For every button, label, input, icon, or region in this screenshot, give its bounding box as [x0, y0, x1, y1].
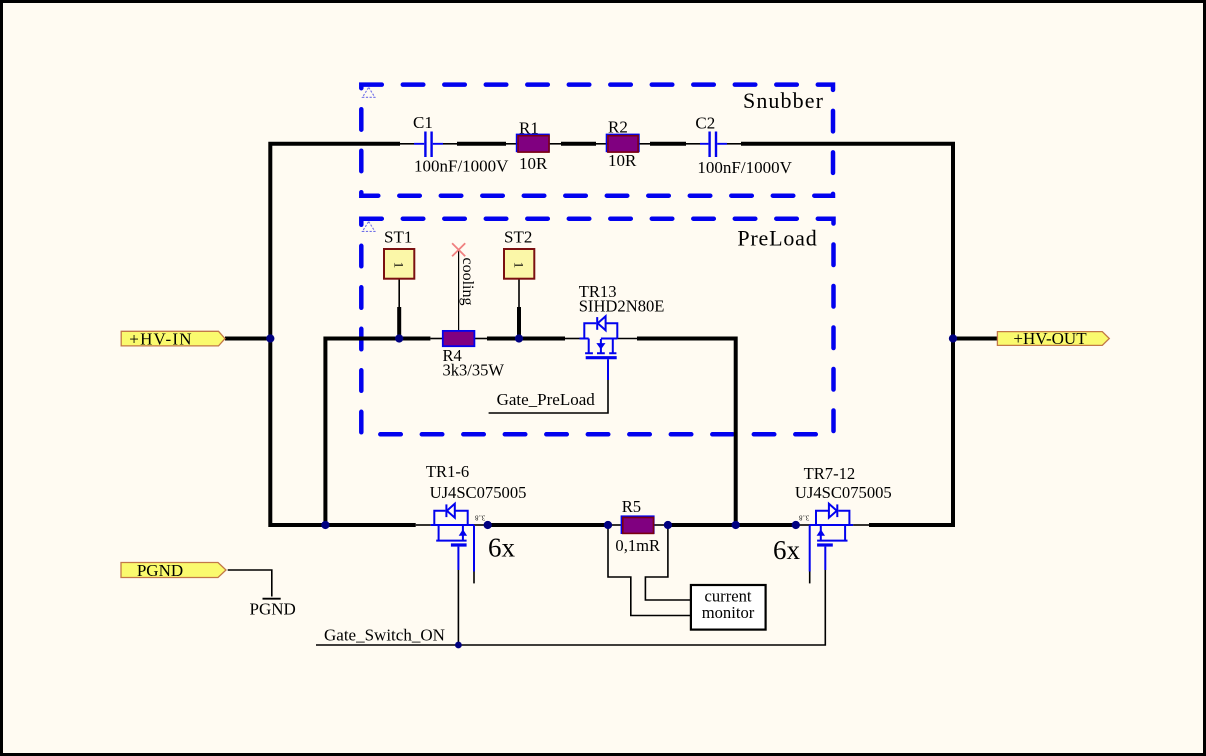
pin C2 left — [686, 143, 700, 145]
svg-text:R5: R5 — [622, 497, 641, 516]
svg-text:0,1mR: 0,1mR — [615, 536, 661, 555]
svg-text:Gate_PreLoad: Gate_PreLoad — [497, 390, 596, 409]
wire preload feed riser and R4 line — [325, 339, 430, 526]
pin R4 right — [475, 338, 487, 340]
resistor R5 — [621, 516, 653, 533]
pin R1 right — [549, 143, 561, 145]
svg-text:PreLoad: PreLoad — [737, 226, 817, 251]
wire ST1 stub — [397, 307, 401, 339]
wire snubber R2-C2 segment — [650, 142, 686, 146]
pin TR7-12 drain — [796, 524, 810, 526]
svg-text:R2: R2 — [608, 118, 628, 137]
svg-text:Gate_Switch_ON: Gate_Switch_ON — [324, 626, 445, 645]
port PGND — [121, 561, 226, 580]
resistor R1 — [517, 134, 549, 152]
svg-text:+HV-OUT: +HV-OUT — [1013, 329, 1087, 348]
snubber collapse triangle — [362, 87, 375, 97]
wire R4 to TR13 segment — [487, 337, 565, 341]
resistor R4 — [443, 331, 475, 346]
current monitor box — [691, 585, 766, 630]
wire left bus from snubber line down to bottom line — [270, 144, 415, 525]
pin TR1-6 drain — [416, 524, 431, 526]
junction right bus / +HV-OUT — [949, 334, 957, 342]
junction +HV-IN / left bus — [266, 334, 274, 342]
pin C2 right — [727, 143, 741, 145]
pin ST1 — [398, 279, 400, 307]
svg-text:ST2: ST2 — [504, 228, 532, 247]
pin TR1-6 gate tail — [457, 570, 459, 645]
junction ST1 / R4 line — [395, 334, 403, 342]
junction TR1-6 gate / Gate_Switch_ON — [455, 642, 462, 649]
port +HV-IN — [121, 329, 225, 348]
svg-text:cooling: cooling — [459, 258, 476, 306]
svg-text:3..8: 3..8 — [475, 513, 486, 520]
pin C1 left — [400, 143, 414, 145]
pin R2 right — [638, 143, 650, 145]
capacitor C1 — [414, 132, 443, 158]
snubber region dashed box — [361, 85, 833, 196]
svg-text:3k3/35W: 3k3/35W — [443, 361, 505, 380]
svg-text:PGND: PGND — [137, 561, 183, 580]
svg-text:TR1-6: TR1-6 — [426, 462, 469, 481]
wire TR13 drain to right riser down to bottom line — [637, 339, 736, 526]
wire ST2 stub — [517, 307, 521, 339]
transistor TR13 — [580, 316, 618, 380]
wire R5 right sense to current monitor — [645, 525, 691, 600]
svg-text:3..8: 3..8 — [799, 513, 810, 520]
ground PGND power-port bar — [263, 598, 281, 600]
svg-text:PGND: PGND — [250, 600, 296, 619]
pin R4 left — [430, 338, 442, 340]
svg-text:monitor: monitor — [702, 603, 755, 622]
wire right bus from snubber line down to bottom line — [741, 144, 953, 525]
wire PGND port to ground — [228, 570, 272, 597]
wire R5 left sense to current monitor — [608, 525, 691, 616]
wire Gate_PreLoad net — [489, 380, 608, 413]
junction R5 left — [604, 521, 612, 529]
port +HV-OUT — [997, 329, 1109, 348]
pin ST2 — [518, 279, 520, 307]
svg-text:6x: 6x — [773, 535, 801, 565]
svg-text:UJ4SC075005: UJ4SC075005 — [795, 483, 892, 502]
junction R5 right — [664, 521, 672, 529]
wire snubber C1-R1 segment — [457, 142, 506, 146]
svg-text:100nF/1000V: 100nF/1000V — [697, 158, 792, 177]
svg-text:1: 1 — [392, 262, 407, 269]
cooling no-erc cross — [452, 243, 465, 256]
capacitor C2 — [700, 132, 727, 158]
svg-text:R1: R1 — [519, 119, 539, 138]
connector ST1 — [384, 249, 414, 279]
wire cooling parameter link — [458, 250, 460, 331]
wire bottom line left segment — [489, 523, 609, 527]
transistor TR1-6 — [431, 504, 474, 572]
pin TR1-6 source-sense tail — [473, 572, 475, 584]
pin TR1-6 source — [474, 524, 489, 526]
preload region dashed box — [361, 219, 833, 435]
wire snubber R1-R2 segment — [561, 142, 596, 146]
pin R5 left — [609, 524, 623, 526]
svg-text:UJ4SC075005: UJ4SC075005 — [430, 483, 527, 502]
svg-text:ST1: ST1 — [384, 228, 412, 247]
wire right bus to +HV-OUT port — [953, 337, 997, 341]
junction TR1-6 source / bottom line — [484, 521, 492, 529]
connector ST2 — [504, 249, 534, 279]
svg-text:100nF/1000V: 100nF/1000V — [414, 157, 509, 176]
svg-text:6x: 6x — [488, 533, 516, 563]
junction preload riser / bottom line — [732, 521, 740, 529]
pin R1 left — [506, 143, 518, 145]
svg-text:C1: C1 — [413, 113, 433, 132]
svg-text:SIHD2N80E: SIHD2N80E — [579, 297, 665, 316]
junction preload feed / bottom line — [321, 521, 329, 529]
wire +HV-IN port to left bus — [225, 337, 270, 341]
svg-text:1: 1 — [512, 262, 527, 269]
svg-text:C2: C2 — [695, 114, 715, 133]
svg-text:TR7-12: TR7-12 — [804, 464, 856, 483]
transistor TR7-12 — [810, 504, 853, 572]
resistor R2 — [607, 134, 639, 152]
svg-text:10R: 10R — [519, 154, 548, 173]
wire bottom line right segment — [667, 523, 797, 527]
pin TR13 drain — [617, 338, 637, 340]
junction TR7-12 drain / bottom line — [792, 521, 800, 529]
pin R2 left — [596, 143, 608, 145]
pin TR7-12 source-sense tail — [809, 572, 811, 584]
svg-text:10R: 10R — [608, 151, 637, 170]
pin TR13 source — [565, 338, 580, 340]
svg-text:Snubber: Snubber — [743, 88, 824, 113]
preload collapse triangle — [362, 222, 375, 232]
junction ST2 / R4 line — [515, 334, 523, 342]
pin R5 right — [654, 524, 668, 526]
pin TR7-12 source — [853, 524, 869, 526]
pin C1 right — [443, 143, 457, 145]
svg-text:+HV-IN: +HV-IN — [129, 329, 192, 348]
wire Gate_Switch_ON net — [316, 570, 825, 645]
